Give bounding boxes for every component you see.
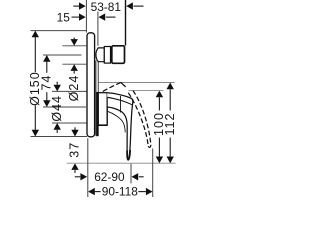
hub right face	[106, 98, 108, 125]
lever chamfer inner curve	[107, 111, 125, 132]
dim 62-90	[75, 170, 144, 184]
extension line lever grip end	[130, 164, 132, 184]
svg-text:62-90: 62-90	[94, 170, 125, 184]
lever outline (arm, tip, grip)	[107, 93, 133, 160]
lever arm lower edge	[107, 97, 132, 104]
dim Ø44 extension lines	[52, 90, 87, 92]
extension line lever grip end (open position)	[152, 149, 154, 198]
hub bottom edge	[97, 124, 107, 126]
dim 112	[163, 83, 177, 164]
extension line A (plate front face, above plate)	[85, 0, 87, 33]
svg-text:37: 37	[68, 142, 82, 158]
dim Ø150 extension lines	[31, 30, 86, 32]
sleeve outer edge	[97, 62, 99, 136]
dim 15	[57, 10, 116, 24]
dim Ø24	[67, 38, 81, 102]
svg-text:90-118: 90-118	[102, 185, 139, 199]
svg-text:74: 74	[39, 75, 53, 91]
lever grip tip (thick)	[127, 150, 130, 160]
cartridge body (in wall)	[112, 46, 125, 64]
lever front crease	[120, 96, 122, 113]
sleeve behind plate	[95, 61, 97, 137]
dim Ø24 extension lines	[62, 45, 86, 47]
svg-text:112: 112	[163, 113, 177, 136]
dashed lever (alternate position)	[103, 82, 151, 147]
cartridge step mid	[104, 47, 110, 64]
extension line B (wall surface line, above plate)	[97, 12, 99, 46]
handle hub	[97, 92, 107, 136]
dim 53-81	[73, 0, 143, 14]
cartridge step small	[96, 48, 104, 62]
escutcheon plate Ø150	[87, 33, 95, 137]
dim 74 extension lines	[43, 54, 82, 56]
wall line	[125, 0, 127, 46]
dim 37	[68, 127, 82, 173]
svg-text:Ø44: Ø44	[50, 95, 64, 122]
dim 100 top extension	[129, 90, 164, 92]
dim Ø150	[28, 31, 42, 137]
dim Ø44	[50, 82, 64, 133]
dim 90-118	[88, 185, 153, 199]
dim 112 top extension	[98, 82, 174, 84]
dim 74	[39, 55, 53, 107]
svg-text:53-81: 53-81	[91, 0, 122, 14]
svg-text:Ø24: Ø24	[67, 75, 81, 102]
svg-text:15: 15	[57, 10, 71, 24]
dim 100	[152, 91, 166, 164]
bottom extension (lever end level)	[67, 162, 176, 164]
extension line plate front face, below plate	[87, 138, 89, 197]
